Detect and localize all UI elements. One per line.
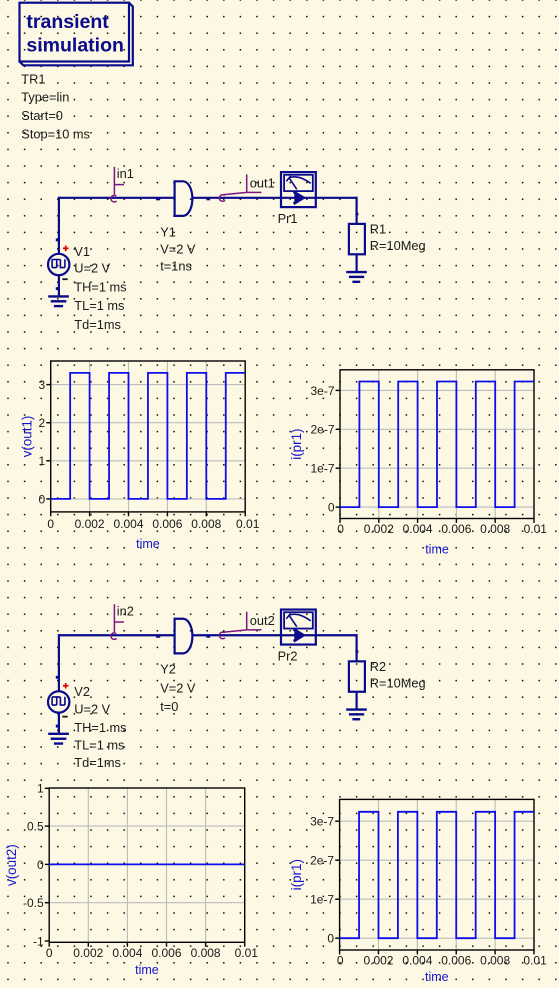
svg-text:out1: out1 bbox=[250, 176, 275, 191]
svg-text:in2: in2 bbox=[117, 603, 134, 618]
transient parameters TR1 bbox=[21, 71, 90, 141]
ground under V1 bbox=[48, 296, 69, 306]
svg-text:U=2 V: U=2 V bbox=[74, 260, 110, 275]
svg-text:0: 0 bbox=[337, 954, 344, 968]
node in2 bbox=[111, 603, 134, 639]
svg-text:0.01: 0.01 bbox=[236, 517, 260, 531]
svg-text:Y2: Y2 bbox=[160, 661, 176, 676]
svg-text:0.006: 0.006 bbox=[441, 522, 471, 536]
curve v(out2) bbox=[49, 863, 245, 865]
wire in2 horizontal left bbox=[59, 635, 175, 638]
svg-text:R1: R1 bbox=[370, 222, 386, 237]
svg-text:Type=lin: Type=lin bbox=[21, 90, 69, 105]
svg-text:TH=1 ms: TH=1 ms bbox=[74, 720, 126, 735]
svg-text:0.008: 0.008 bbox=[191, 517, 221, 531]
svg-text:3e-7: 3e-7 bbox=[310, 815, 334, 829]
svg-text:R=10Meg: R=10Meg bbox=[370, 675, 426, 690]
svg-text:1: 1 bbox=[39, 454, 46, 468]
axis ticks and numbers bbox=[310, 815, 547, 968]
svg-text:0.006: 0.006 bbox=[151, 946, 181, 960]
axis ticks and numbers bbox=[310, 384, 547, 536]
ground under V2 bbox=[48, 734, 69, 744]
svg-text:0.006: 0.006 bbox=[152, 517, 182, 531]
svg-text:v(out1): v(out1) bbox=[20, 416, 35, 458]
ground under R1 bbox=[346, 272, 367, 282]
svg-text:3e-7: 3e-7 bbox=[310, 384, 334, 398]
ammeter Pr1 bbox=[278, 172, 316, 226]
svg-text:3: 3 bbox=[39, 378, 46, 392]
diagram gridlines bbox=[340, 370, 534, 519]
axis label i(pr1) bbox=[289, 859, 304, 890]
svg-text:time: time bbox=[425, 542, 449, 556]
svg-text:t=0: t=0 bbox=[160, 699, 178, 714]
svg-text:transient: transient bbox=[26, 11, 109, 33]
wire in1 horizontal left bbox=[59, 198, 175, 200]
svg-text:TL=1 ms: TL=1 ms bbox=[74, 737, 124, 752]
axis ticks and numbers bbox=[23, 782, 258, 961]
svg-text:Y1: Y1 bbox=[160, 224, 176, 239]
svg-text:0.5: 0.5 bbox=[27, 820, 44, 834]
svg-text:time: time bbox=[135, 963, 159, 977]
axis ticks and numbers bbox=[39, 378, 260, 531]
svg-text:0: 0 bbox=[328, 501, 335, 515]
resistor R2 bbox=[349, 634, 426, 709]
diagram axes box bbox=[340, 370, 534, 519]
svg-text:0.004: 0.004 bbox=[113, 517, 143, 531]
svg-text:i(pr1): i(pr1) bbox=[289, 859, 304, 890]
svg-text:1e-7: 1e-7 bbox=[310, 462, 334, 476]
svg-text:R2: R2 bbox=[370, 659, 386, 674]
svg-text:0: 0 bbox=[337, 522, 344, 536]
svg-text:0.01: 0.01 bbox=[524, 522, 548, 536]
curve v(out1) bbox=[51, 373, 246, 499]
svg-text:1: 1 bbox=[37, 782, 44, 796]
svg-text:V2: V2 bbox=[74, 684, 90, 699]
svg-text:0.002: 0.002 bbox=[364, 522, 394, 536]
svg-text:simulation: simulation bbox=[26, 34, 124, 56]
svg-text:V=2 V: V=2 V bbox=[160, 680, 196, 695]
wire to voltage source bbox=[56, 634, 59, 691]
svg-text:0: 0 bbox=[327, 932, 334, 946]
svg-text:0.002: 0.002 bbox=[73, 946, 103, 960]
svg-text:0.01: 0.01 bbox=[235, 946, 259, 960]
svg-text:TH=1 ms: TH=1 ms bbox=[74, 280, 126, 295]
svg-text:V=2 V: V=2 V bbox=[160, 241, 196, 256]
svg-text:0: 0 bbox=[37, 858, 44, 872]
voltage source V2 bbox=[48, 683, 127, 770]
node in1 bbox=[111, 166, 134, 202]
svg-text:V1: V1 bbox=[74, 244, 90, 259]
wire source to ground bbox=[56, 713, 59, 734]
axis label time bbox=[136, 537, 160, 551]
buffer gate Y1 bbox=[160, 181, 196, 273]
svg-text:0.004: 0.004 bbox=[112, 946, 142, 960]
svg-text:i(pr1): i(pr1) bbox=[289, 429, 304, 460]
svg-text:Td=1ms: Td=1ms bbox=[74, 755, 121, 770]
svg-text:0.004: 0.004 bbox=[403, 522, 433, 536]
svg-text:0: 0 bbox=[47, 517, 54, 531]
svg-text:1e-7: 1e-7 bbox=[310, 893, 334, 907]
svg-text:-0.5: -0.5 bbox=[23, 896, 44, 910]
svg-text:0.008: 0.008 bbox=[480, 954, 510, 968]
svg-text:2: 2 bbox=[39, 416, 46, 430]
svg-text:TR1: TR1 bbox=[21, 71, 45, 86]
svg-text:Pr1: Pr1 bbox=[278, 211, 298, 226]
svg-text:0.004: 0.004 bbox=[402, 954, 432, 968]
ammeter Pr2 bbox=[278, 610, 316, 664]
svg-text:0.008: 0.008 bbox=[191, 946, 221, 960]
svg-text:0: 0 bbox=[39, 492, 46, 506]
ground under R2 bbox=[346, 710, 367, 720]
svg-text:0: 0 bbox=[46, 946, 53, 960]
axis label i(pr1) bbox=[289, 429, 304, 460]
wire to voltage source bbox=[56, 197, 59, 254]
diagram gridlines bbox=[51, 361, 246, 512]
svg-text:R=10Meg: R=10Meg bbox=[370, 238, 426, 253]
svg-text:Pr2: Pr2 bbox=[278, 648, 298, 663]
wire source to ground bbox=[56, 275, 59, 296]
axis label time bbox=[425, 970, 449, 984]
axis label time bbox=[425, 542, 449, 556]
svg-text:v(out2): v(out2) bbox=[4, 844, 19, 886]
svg-text:-1: -1 bbox=[33, 934, 44, 948]
svg-text:Td=1ms: Td=1ms bbox=[74, 317, 121, 332]
diagram axes box bbox=[51, 361, 246, 512]
axis label v(out2) bbox=[4, 844, 19, 886]
svg-text:0.01: 0.01 bbox=[523, 954, 547, 968]
simulation title box bbox=[20, 3, 133, 66]
svg-text:time: time bbox=[136, 537, 160, 551]
wire gate output bbox=[192, 635, 356, 638]
curve i(pr1) bbox=[340, 812, 534, 938]
svg-text:t=1ns: t=1ns bbox=[160, 259, 192, 274]
svg-text:Stop=10 ms: Stop=10 ms bbox=[21, 127, 90, 142]
svg-text:2e-7: 2e-7 bbox=[310, 854, 334, 868]
svg-text:0.008: 0.008 bbox=[480, 522, 510, 536]
svg-text:out2: out2 bbox=[250, 613, 275, 628]
curve i(pr1) bbox=[340, 382, 534, 508]
buffer gate Y2 bbox=[160, 619, 196, 714]
axis label time bbox=[135, 963, 159, 977]
resistor R1 bbox=[349, 197, 426, 272]
svg-text:0.002: 0.002 bbox=[75, 517, 105, 531]
wire gate output bbox=[192, 198, 356, 200]
svg-text:0.006: 0.006 bbox=[441, 954, 471, 968]
svg-text:0.002: 0.002 bbox=[363, 954, 393, 968]
svg-text:time: time bbox=[425, 970, 449, 984]
node out2 bbox=[219, 612, 274, 639]
svg-text:TL=1 ms: TL=1 ms bbox=[74, 298, 124, 313]
diagram gridlines bbox=[340, 799, 534, 950]
diagram axes box bbox=[49, 788, 245, 942]
svg-text:in1: in1 bbox=[117, 166, 134, 181]
axis label v(out1) bbox=[20, 416, 35, 458]
diagram axes box bbox=[340, 799, 534, 950]
node out1 bbox=[219, 174, 274, 201]
voltage source V1 bbox=[48, 244, 127, 332]
svg-text:2e-7: 2e-7 bbox=[310, 423, 334, 437]
svg-text:Start=0: Start=0 bbox=[21, 108, 63, 123]
diagram gridlines bbox=[49, 788, 245, 942]
svg-text:U=2 V: U=2 V bbox=[74, 702, 110, 717]
